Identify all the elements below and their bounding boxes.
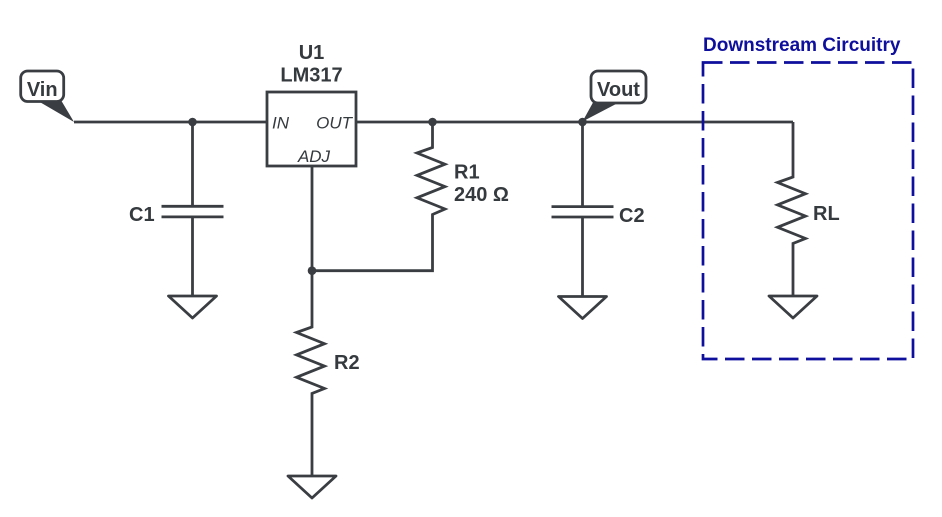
ground under R2 [288,476,336,498]
node Vout [578,118,587,127]
op-amp U1 box [267,92,356,166]
flag Vout [583,71,647,122]
svg-text:Downstream Circuitry: Downstream Circuitry [703,35,901,56]
wire C1 branch [191,122,194,206]
resistor RL [778,122,806,296]
svg-text:C2: C2 [619,205,645,227]
svg-text:C1: C1 [129,204,155,226]
svg-text:Vout: Vout [597,79,640,101]
svg-text:LM317: LM317 [280,65,342,87]
capacitor C2 [552,207,614,296]
resistor R1 [312,122,445,271]
resistor R2 [297,271,325,476]
ground under C1 [169,296,217,318]
svg-text:U1: U1 [299,42,325,64]
svg-text:R2: R2 [334,352,360,374]
flag Vin [21,71,74,122]
svg-text:Vin: Vin [27,79,58,101]
svg-text:RL: RL [813,203,840,225]
node at C1 / input rail [188,118,197,127]
wire main rail Vin to load [74,121,793,124]
annotation box Downstream Circuitry [703,63,913,360]
wire ADJ pin down [311,166,314,271]
node ADJ junction [308,266,317,275]
svg-text:R1: R1 [454,162,480,184]
svg-text:IN: IN [272,114,290,133]
node at R1 top / output rail [428,118,437,127]
capacitor C1 [162,206,224,295]
ground under RL [769,296,817,318]
ground under C2 [559,297,607,319]
svg-text:240 Ω: 240 Ω [454,184,509,206]
wire C2 branch [581,122,584,207]
svg-text:OUT: OUT [316,114,354,133]
svg-text:ADJ: ADJ [297,147,331,166]
